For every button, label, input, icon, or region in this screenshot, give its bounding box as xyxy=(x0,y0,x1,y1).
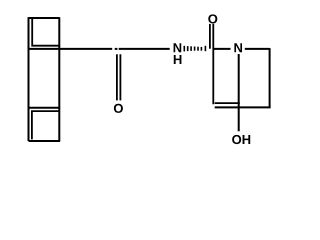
hashed wedge bond NH to C xyxy=(184,46,207,52)
shared bond middle ring / bottom ring xyxy=(29,107,60,109)
N label (amide NH) xyxy=(174,43,182,52)
shared bond top ring / middle ring xyxy=(29,48,60,50)
ring top-right bond N to C xyxy=(245,48,270,50)
ring right edge xyxy=(269,48,271,107)
right carbonyl right line + ring left edge xyxy=(212,24,214,104)
wire left edge xyxy=(28,17,30,141)
chain bond from ring to carbonyl C xyxy=(59,48,112,50)
top ring inner double bond (left+bottom) xyxy=(32,19,58,46)
ring bottom inner double bond xyxy=(215,102,240,104)
wire right edge xyxy=(58,17,60,141)
wire bottom edge xyxy=(29,140,61,142)
H label (amide NH) xyxy=(174,55,182,64)
chemical structure diagram 295x159 xyxy=(0,0,295,159)
ring top-left bond C to N xyxy=(213,48,230,50)
O label (left carbonyl) xyxy=(114,104,123,113)
N label (ring nitrogen) xyxy=(234,43,242,52)
small bond fragment at carbonyl C xyxy=(115,48,118,50)
C=O double bond (down) xyxy=(116,54,118,100)
ring bottom edge xyxy=(215,106,271,108)
bottom ring inner double bond (left+top) xyxy=(32,111,59,139)
C=O double bond (up, right carbonyl) xyxy=(209,24,211,49)
O label (right carbonyl) xyxy=(208,14,217,23)
bond carbonyl C to NH xyxy=(119,48,170,50)
wire top edge xyxy=(29,17,60,19)
bond N down through ring to OH xyxy=(238,54,240,131)
OH label xyxy=(232,135,241,144)
